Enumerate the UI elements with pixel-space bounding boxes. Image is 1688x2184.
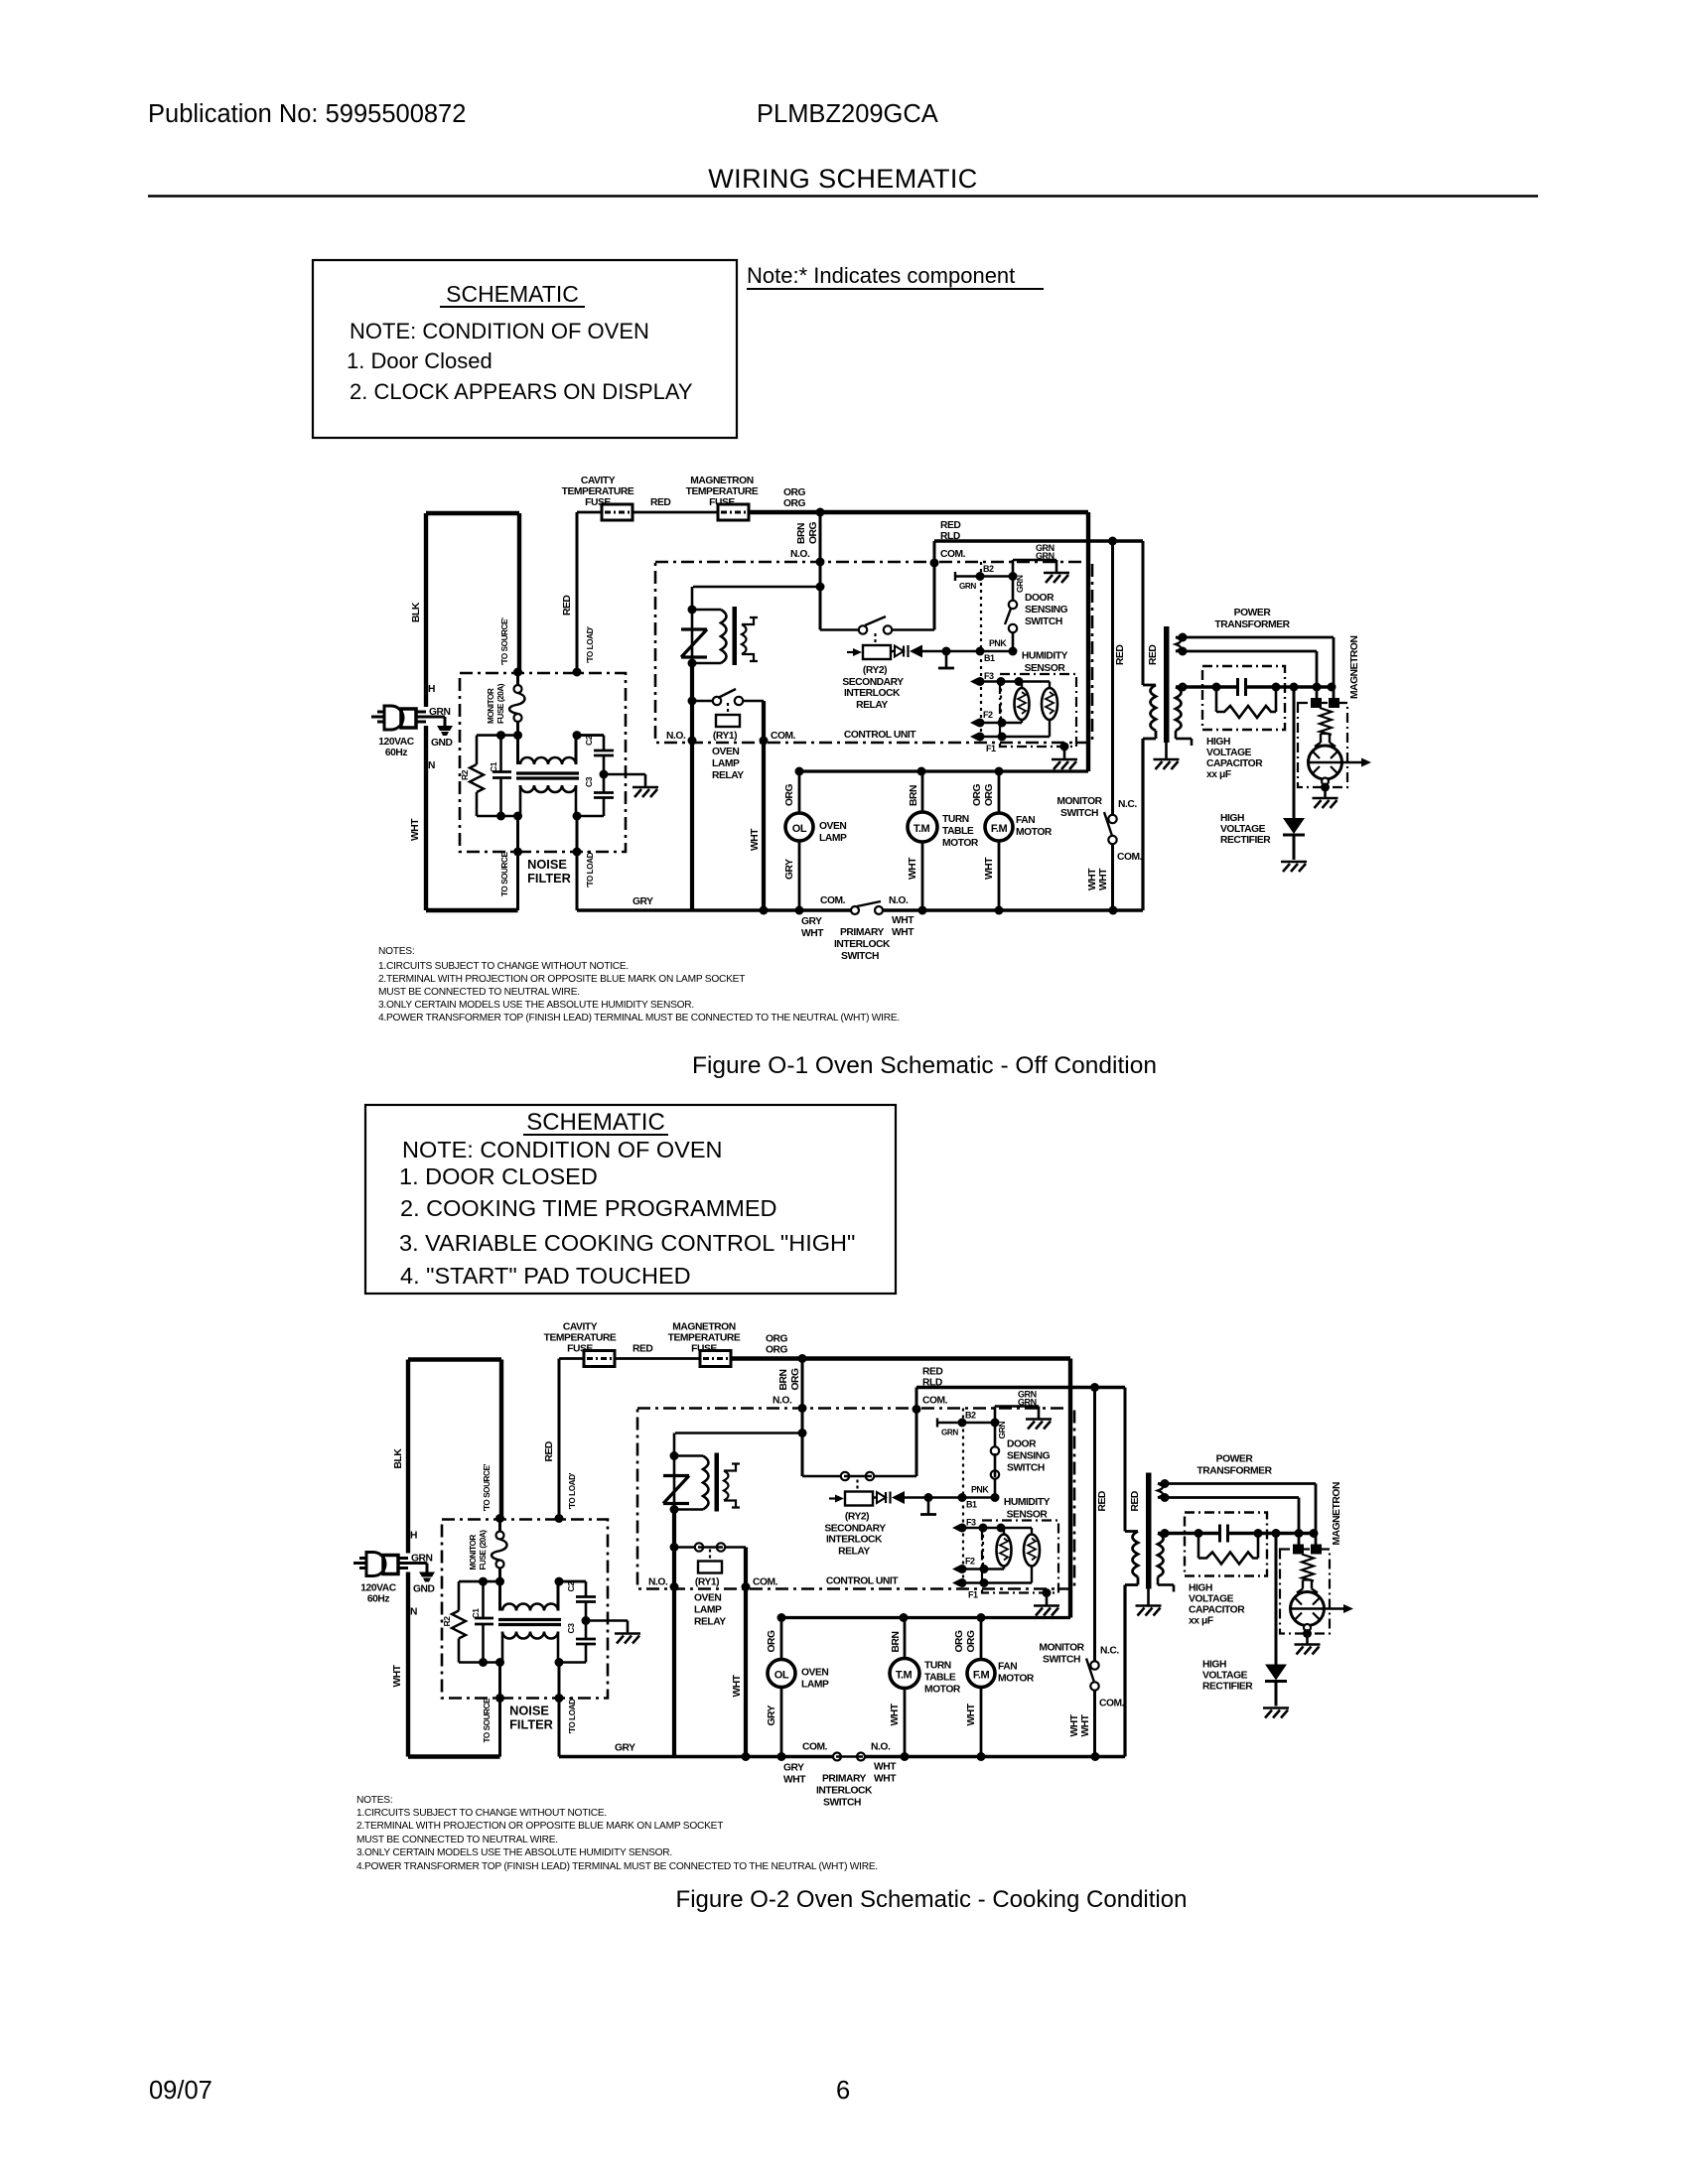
svg-text:GRY: GRY [784, 859, 795, 880]
svg-text:6: 6 [836, 2077, 850, 2105]
svg-text:WHT: WHT [801, 928, 824, 939]
svg-text:09/07: 09/07 [149, 2077, 212, 2105]
svg-text:COM.: COM. [771, 731, 796, 742]
svg-text:PRIMARY: PRIMARY [840, 927, 885, 938]
svg-text:INTERLOCK: INTERLOCK [834, 939, 891, 950]
svg-text:GRN: GRN [1015, 575, 1025, 593]
svg-text:1.CIRCUITS SUBJECT TO CHANGE W: 1.CIRCUITS SUBJECT TO CHANGE WITHOUT NOT… [356, 1808, 607, 1819]
svg-text:MUST BE CONNECTED TO NEUTRAL W: MUST BE CONNECTED TO NEUTRAL WIRE. [356, 1835, 558, 1845]
svg-text:WHT: WHT [908, 857, 918, 880]
svg-text:MOTOR: MOTOR [1016, 827, 1053, 838]
svg-text:1. DOOR CLOSED: 1. DOOR CLOSED [399, 1163, 598, 1189]
svg-text:SENSOR: SENSOR [1025, 663, 1066, 674]
svg-text:CAVITY: CAVITY [581, 476, 616, 486]
svg-text:NOTE: CONDITION OF OVEN: NOTE: CONDITION OF OVEN [350, 319, 649, 343]
svg-text:B2: B2 [983, 564, 994, 574]
svg-text:MAGNETRON: MAGNETRON [690, 476, 753, 486]
svg-text:COM.: COM. [1117, 852, 1143, 863]
svg-text:FUSE: FUSE [585, 497, 611, 508]
svg-text:TRANSFORMER: TRANSFORMER [1214, 619, 1290, 630]
svg-text:WHT: WHT [1087, 868, 1098, 890]
svg-text:2. CLOCK APPEARS ON DISPLAY: 2. CLOCK APPEARS ON DISPLAY [350, 379, 693, 404]
svg-text:TEMPERATURE: TEMPERATURE [686, 486, 759, 497]
svg-text:OVEN: OVEN [819, 821, 846, 832]
svg-text:TABLE: TABLE [942, 826, 974, 837]
svg-text:RED: RED [562, 596, 573, 615]
svg-text:RELAY: RELAY [856, 700, 888, 711]
svg-text:COM.: COM. [820, 895, 846, 906]
svg-text:WHT: WHT [750, 828, 761, 851]
svg-text:OVEN: OVEN [712, 747, 739, 757]
svg-text:GRY: GRY [633, 896, 653, 907]
svg-text:GND: GND [431, 738, 453, 749]
svg-text:2. COOKING TIME PROGRAMMED: 2. COOKING TIME PROGRAMMED [400, 1195, 777, 1221]
svg-text:2.TERMINAL WITH PROJECTION OR: 2.TERMINAL WITH PROJECTION OR OPPOSITE B… [378, 974, 745, 985]
svg-text:ORG: ORG [783, 498, 806, 509]
svg-text:OL: OL [792, 823, 807, 835]
svg-text:PNK: PNK [989, 638, 1007, 648]
svg-text:SWITCH: SWITCH [841, 951, 879, 962]
svg-text:LAMP: LAMP [712, 758, 740, 769]
svg-text:Figure O-2 Oven Schematic - Co: Figure O-2 Oven Schematic - Cooking Cond… [676, 1886, 1188, 1913]
svg-text:B1: B1 [984, 653, 995, 663]
svg-text:H: H [428, 684, 435, 695]
svg-text:ORG: ORG [972, 783, 983, 806]
svg-text:Figure O-1 Oven Schematic - Of: Figure O-1 Oven Schematic - Off Conditio… [692, 1052, 1157, 1079]
svg-text:WHT: WHT [892, 927, 914, 938]
svg-text:WIRING SCHEMATIC: WIRING SCHEMATIC [708, 164, 977, 194]
svg-text:INTERLOCK: INTERLOCK [844, 688, 901, 699]
svg-text:R2: R2 [460, 769, 470, 780]
svg-text:BRN: BRN [796, 523, 807, 544]
svg-text:LAMP: LAMP [819, 833, 847, 844]
svg-text:WHT: WHT [984, 857, 995, 880]
svg-text:TO SOURCE: TO SOURCE [500, 852, 509, 896]
svg-text:Note:* Indicates component: Note:* Indicates component [747, 263, 1015, 288]
svg-text:RELAY: RELAY [712, 770, 744, 781]
svg-text:F.M: F.M [991, 823, 1008, 835]
svg-text:WHT: WHT [892, 915, 914, 926]
svg-text:1.CIRCUITS SUBJECT TO CHANGE W: 1.CIRCUITS SUBJECT TO CHANGE WITHOUT NOT… [378, 961, 629, 972]
svg-text:BLK: BLK [411, 602, 422, 622]
svg-text:GRN: GRN [1036, 551, 1055, 561]
svg-text:GRN: GRN [959, 582, 976, 591]
svg-text:WHT: WHT [410, 818, 421, 841]
svg-text:ORG: ORG [783, 487, 806, 498]
svg-text:N.O.: N.O. [666, 731, 686, 742]
svg-text:120VAC: 120VAC [378, 737, 414, 748]
svg-text:'TO LOAD': 'TO LOAD' [586, 626, 595, 663]
svg-text:Publication No: 5995500872: Publication No: 5995500872 [148, 100, 466, 128]
svg-text:SCHEMATIC: SCHEMATIC [526, 1109, 665, 1136]
svg-text:CAPACITOR: CAPACITOR [1206, 758, 1263, 769]
svg-text:FAN: FAN [1016, 815, 1035, 826]
svg-text:NOTES:: NOTES: [356, 1795, 392, 1806]
svg-text:N: N [428, 760, 435, 771]
svg-text:T.M: T.M [914, 823, 930, 835]
svg-text:GRY: GRY [801, 916, 822, 927]
svg-text:F2: F2 [983, 710, 993, 720]
svg-text:NOTE: CONDITION OF OVEN: NOTE: CONDITION OF OVEN [402, 1137, 722, 1162]
svg-text:SWITCH: SWITCH [1025, 616, 1062, 627]
svg-text:HIGH: HIGH [1206, 737, 1230, 748]
svg-text:SWITCH: SWITCH [1060, 808, 1098, 819]
svg-text:SCHEMATIC: SCHEMATIC [446, 281, 579, 307]
svg-text:3. VARIABLE COOKING CONTROL "H: 3. VARIABLE COOKING CONTROL "HIGH" [399, 1230, 855, 1256]
svg-text:NOTES:: NOTES: [378, 946, 414, 957]
svg-text:HUMIDITY: HUMIDITY [1022, 651, 1068, 662]
svg-text:RED: RED [1148, 645, 1159, 665]
svg-text:xx μF: xx μF [1206, 769, 1231, 780]
svg-text:PLMBZ209GCA: PLMBZ209GCA [757, 100, 938, 128]
svg-text:HIGH: HIGH [1220, 813, 1244, 824]
svg-text:F1: F1 [986, 744, 996, 753]
svg-text:TEMPERATURE: TEMPERATURE [562, 486, 634, 497]
svg-text:N.C.: N.C. [1118, 799, 1137, 810]
svg-text:C1: C1 [489, 761, 498, 772]
svg-text:1. Door Closed: 1. Door Closed [347, 348, 492, 373]
svg-text:VOLTAGE: VOLTAGE [1206, 748, 1252, 758]
svg-text:MOTOR: MOTOR [942, 838, 979, 849]
svg-text:DOOR: DOOR [1025, 593, 1055, 604]
svg-text:BRN: BRN [909, 785, 919, 806]
svg-text:'TO SOURCE': 'TO SOURCE' [500, 617, 509, 665]
svg-text:FUSE (20A): FUSE (20A) [496, 683, 505, 724]
svg-text:RED: RED [940, 520, 960, 531]
svg-text:FILTER: FILTER [527, 871, 571, 886]
svg-text:2.TERMINAL WITH PROJECTION OR: 2.TERMINAL WITH PROJECTION OR OPPOSITE B… [356, 1821, 723, 1832]
svg-text:MONITOR: MONITOR [1056, 796, 1102, 807]
svg-text:'TO LOAD': 'TO LOAD' [586, 851, 595, 887]
svg-text:ORG: ORG [984, 783, 995, 806]
svg-text:COM.: COM. [940, 549, 966, 560]
svg-text:FUSE: FUSE [709, 497, 735, 508]
svg-text:ORG: ORG [784, 783, 795, 806]
svg-text:SECONDARY: SECONDARY [842, 677, 904, 688]
svg-text:4.POWER TRANSFORMER TOP (FINIS: 4.POWER TRANSFORMER TOP (FINISH LEAD) TE… [378, 1013, 900, 1024]
svg-text:C3: C3 [584, 776, 594, 787]
svg-text:N.O.: N.O. [889, 895, 909, 906]
svg-text:RED: RED [1115, 645, 1126, 665]
svg-text:3.ONLY CERTAIN MODELS USE THE: 3.ONLY CERTAIN MODELS USE THE ABSOLUTE H… [378, 1000, 694, 1011]
svg-text:GRN: GRN [429, 707, 451, 718]
svg-text:(RY2): (RY2) [863, 665, 887, 676]
svg-text:4. "START" PAD TOUCHED: 4. "START" PAD TOUCHED [400, 1263, 691, 1289]
svg-text:RED: RED [650, 497, 670, 508]
svg-text:NOISE: NOISE [527, 857, 567, 872]
svg-text:(RY1): (RY1) [713, 731, 737, 742]
svg-text:60Hz: 60Hz [385, 748, 408, 758]
svg-text:WHT: WHT [1098, 868, 1109, 890]
svg-text:MONITOR: MONITOR [487, 688, 495, 724]
svg-text:TURN: TURN [942, 814, 969, 825]
svg-text:F3: F3 [984, 671, 994, 681]
svg-text:SENSING: SENSING [1025, 605, 1068, 615]
svg-text:ORG: ORG [808, 521, 819, 544]
svg-text:4.POWER TRANSFORMER TOP (FINIS: 4.POWER TRANSFORMER TOP (FINISH LEAD) TE… [356, 1861, 878, 1872]
svg-text:N.O.: N.O. [790, 549, 810, 560]
svg-text:RECTIFIER: RECTIFIER [1220, 835, 1271, 846]
svg-text:MUST BE CONNECTED TO NEUTRAL W: MUST BE CONNECTED TO NEUTRAL WIRE. [378, 987, 580, 998]
svg-text:MAGNETRON: MAGNETRON [1349, 636, 1360, 699]
svg-text:CONTROL UNIT: CONTROL UNIT [844, 730, 916, 741]
svg-text:RLD: RLD [940, 531, 960, 542]
svg-text:VOLTAGE: VOLTAGE [1220, 824, 1266, 835]
svg-text:POWER: POWER [1234, 608, 1272, 618]
svg-text:3.ONLY CERTAIN MODELS USE THE: 3.ONLY CERTAIN MODELS USE THE ABSOLUTE H… [356, 1847, 672, 1858]
svg-text:C2: C2 [584, 735, 594, 746]
